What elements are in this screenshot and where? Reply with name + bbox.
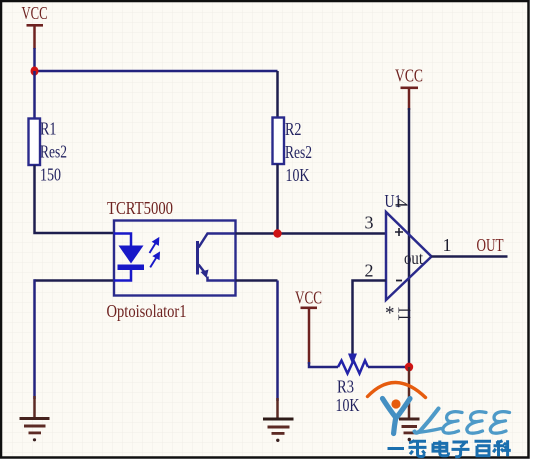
watermark logo: orange arc <box>368 382 426 397</box>
svg-text:11: 11 <box>395 306 415 321</box>
watermark logo: orange head dot <box>391 399 400 408</box>
svg-text:R1: R1 <box>40 119 57 139</box>
op-amp U1 <box>365 191 452 324</box>
wire opto cathode to ground <box>35 279 115 282</box>
ground (middle) <box>263 398 294 442</box>
svg-text:3: 3 <box>365 213 374 233</box>
svg-text:OUT: OUT <box>477 235 504 255</box>
resistor R1 <box>29 119 68 185</box>
svg-text:VCC: VCC <box>295 288 322 308</box>
plus sign <box>395 228 403 236</box>
power port VCC (R3) <box>295 288 322 365</box>
svg-text:2: 2 <box>365 261 374 281</box>
wire VCC stem to node A <box>33 48 36 71</box>
svg-text:10K: 10K <box>336 395 360 415</box>
resistor R2 <box>273 71 313 185</box>
svg-text:Optoisolator1: Optoisolator1 <box>107 301 187 321</box>
svg-text:1: 1 <box>443 235 452 255</box>
node A junction dot <box>31 66 39 75</box>
svg-text:4: 4 <box>392 199 412 208</box>
wire op-amp pin 2 to R3 wiper <box>353 281 387 356</box>
svg-text:Res2: Res2 <box>285 142 312 162</box>
svg-text:R3: R3 <box>337 377 354 397</box>
svg-text:10K: 10K <box>286 165 310 185</box>
wire top horizontal node A to R2 <box>35 70 278 73</box>
svg-text:R2: R2 <box>285 119 302 139</box>
wire opto collector to op-amp pin 3 <box>236 232 387 235</box>
wire VCC to op-amp pin 4 / pin 11 rail <box>408 108 411 367</box>
potentiometer R3 <box>336 354 369 416</box>
wire VCC to R3 left <box>309 362 338 367</box>
emission arrows <box>150 239 160 268</box>
wire op-amp output <box>432 255 508 258</box>
svg-text:Res2: Res2 <box>40 142 67 162</box>
svg-text:VCC: VCC <box>22 3 48 23</box>
node C junction dot <box>405 363 413 372</box>
wire node C to ground <box>408 367 411 418</box>
watermark logo: LEEE script <box>415 409 510 434</box>
power port VCC (op-amp, top) <box>395 66 423 111</box>
wire R2 bottom to node B <box>276 164 279 234</box>
LED inside <box>114 234 131 247</box>
svg-text:TCRT5000: TCRT5000 <box>107 198 173 218</box>
wire opto emitter to ground <box>236 279 278 282</box>
minus sign <box>396 280 402 282</box>
ground (left) <box>20 396 50 441</box>
svg-text:150: 150 <box>40 165 61 185</box>
node B junction dot <box>273 229 281 237</box>
wire R1 bottom to opto anode <box>35 165 115 233</box>
svg-text:out: out <box>404 248 423 268</box>
ground (right) <box>399 418 420 442</box>
svg-text:VCC: VCC <box>395 66 423 86</box>
wire R3 right to node C <box>368 366 409 369</box>
optoisolator U? TCRT5000 <box>107 198 236 321</box>
wire node A down to R1 <box>33 71 36 119</box>
svg-text:*: * <box>385 303 395 324</box>
phototransistor inside <box>196 241 199 275</box>
watermark logo: blue Y figure <box>383 399 396 434</box>
watermark text 一乐电子百科 <box>388 440 511 457</box>
power port VCC (top-left) <box>22 3 48 49</box>
